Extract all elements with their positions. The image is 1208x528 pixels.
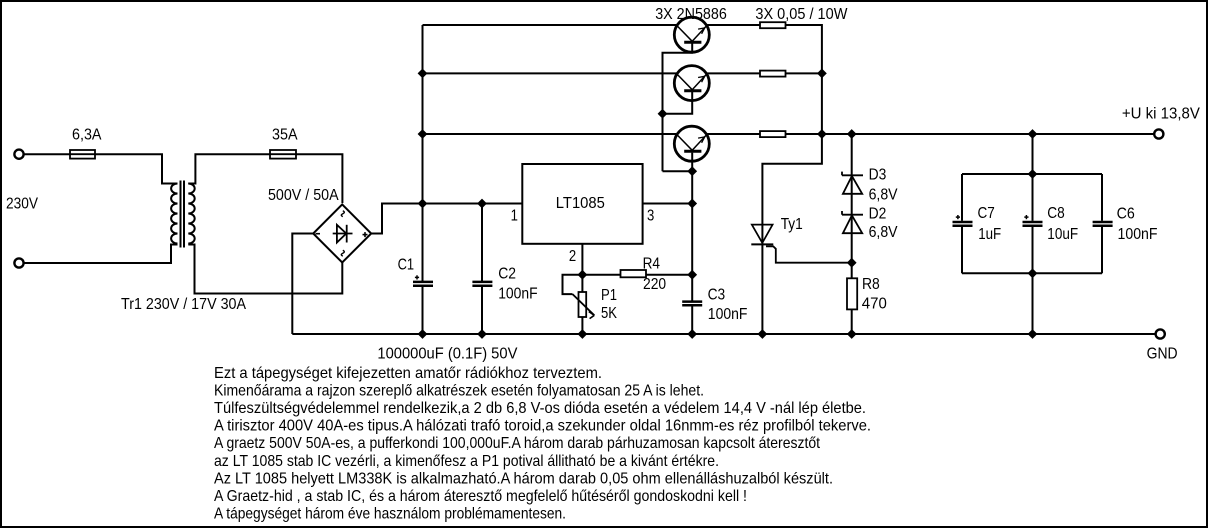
svg-text:R4: R4: [643, 256, 660, 273]
svg-text:C6: C6: [1117, 205, 1135, 222]
wire: [691, 204, 693, 301]
wire: [707, 133, 760, 135]
wire Q3 base: [691, 153, 693, 204]
fuse F2 35A: [270, 150, 296, 159]
node: [817, 129, 827, 139]
node input rail / pin1: [418, 199, 428, 209]
wire: [188, 245, 342, 294]
label P1: [601, 287, 617, 304]
wire: [707, 72, 760, 74]
label R4: [643, 256, 660, 273]
wire cap bank bottom bus: [962, 272, 1102, 274]
svg-text:3: 3: [647, 207, 654, 224]
label 3X 0,05 / 10W: [755, 6, 848, 23]
svg-text:6,8V: 6,8V: [869, 186, 898, 203]
svg-text:3X 0,05 / 10W: 3X 0,05 / 10W: [755, 6, 848, 23]
wire pin2: [581, 244, 583, 292]
label C2 100nF: [498, 286, 538, 303]
svg-text:C8: C8: [1047, 205, 1065, 222]
svg-text:A graetz 500V 50A-es, a puffer: A graetz 500V 50A-es, a pufferkondi 100,…: [214, 435, 820, 452]
wire: [95, 154, 178, 183]
bridge rectifier B1 body: [313, 204, 371, 262]
label 100000uF (0.1F) 50V: [377, 345, 517, 362]
label R4 220: [643, 276, 666, 293]
op-amp U1 LT1085 box: [522, 164, 642, 244]
label C3: [708, 286, 726, 303]
svg-text:100nF: 100nF: [498, 286, 538, 303]
svg-text:Túlfeszültségvédelemmel rendel: Túlfeszültségvédelemmel rendelkezik,a 2 …: [214, 400, 866, 417]
label bridge ~ top: [341, 211, 344, 217]
label Ty1: [781, 216, 803, 233]
node: [578, 270, 588, 280]
svg-text:5K: 5K: [601, 305, 617, 322]
capacitor C8: [1023, 222, 1043, 226]
bridge rectifier B1 diode symbol: [333, 225, 353, 243]
node 230V input terminal top: [14, 150, 23, 159]
node: [1028, 169, 1038, 179]
capacitor C2: [472, 282, 492, 286]
label description line 9: [214, 505, 566, 522]
svg-text:A tápegységet három éve haszná: A tápegységet három éve használom problé…: [214, 505, 566, 522]
resistor R4: [621, 270, 647, 277]
label 3X 2N5886: [655, 6, 727, 23]
capacitor C6: [1093, 222, 1113, 226]
transistor Q2 (2N5886): [674, 66, 709, 101]
node: [847, 129, 857, 139]
wire: [707, 24, 760, 26]
svg-text:az LT 1085 stab IC vezérli, a: az LT 1085 stab IC vezérli, a kimenőfesz…: [214, 453, 719, 470]
wire: [371, 204, 522, 234]
label D3 6,8V: [869, 186, 898, 203]
potentiometer P1 body: [579, 292, 587, 317]
wire: [188, 154, 270, 183]
svg-text:6,3A: 6,3A: [72, 126, 102, 143]
label C6 100nF: [1118, 226, 1158, 243]
resistor R1 0,05: [760, 22, 786, 28]
svg-text:Ty1: Ty1: [781, 216, 803, 233]
node: [687, 166, 697, 176]
svg-text:1: 1: [511, 207, 518, 224]
svg-text:230V: 230V: [6, 196, 38, 213]
svg-text:10uF: 10uF: [1047, 226, 1078, 243]
svg-text:500V / 50A: 500V / 50A: [268, 187, 339, 204]
label C1 +: [415, 275, 419, 279]
svg-text:C2: C2: [498, 265, 516, 282]
wire pin3: [643, 203, 693, 205]
node: [418, 129, 428, 139]
svg-text:100nF: 100nF: [1118, 226, 1158, 243]
label C6: [1117, 205, 1135, 222]
wire: [481, 287, 483, 334]
wire: [1032, 174, 1034, 221]
label C3 100nF: [708, 306, 748, 323]
wire: [292, 234, 313, 335]
node gate junction: [847, 258, 857, 268]
node: [817, 69, 827, 79]
node: [1028, 268, 1038, 278]
label C8 +: [1024, 215, 1028, 219]
node: [477, 199, 487, 209]
label bridge - terminal: [316, 233, 321, 235]
svg-text:C3: C3: [708, 286, 726, 303]
node: [477, 329, 487, 339]
label bridge + terminal: [363, 232, 368, 237]
svg-text:Az LT 1085 helyett LM338K is a: Az LT 1085 helyett LM338K is alkalmazhat…: [214, 470, 833, 487]
label C8 10uF: [1047, 226, 1078, 243]
wire: [786, 72, 822, 74]
transistor Q1 (2N5886): [674, 17, 709, 52]
node pin3 junction: [687, 199, 697, 209]
wire: [1101, 227, 1103, 273]
node: [1028, 129, 1038, 139]
wire: [581, 317, 583, 334]
svg-text:C7: C7: [978, 205, 995, 222]
wire P1 wiper: [563, 275, 583, 294]
wire: [691, 307, 693, 335]
wire: [1032, 134, 1034, 174]
label D2: [869, 206, 887, 223]
wire base rail to Q3: [663, 170, 693, 172]
node: [847, 329, 857, 339]
label D2 6,8V: [869, 224, 898, 241]
transistor Q3 (2N5886): [674, 126, 709, 161]
svg-text:1uF: 1uF: [978, 226, 1001, 243]
potentiometer P1 arrow: [573, 294, 595, 319]
transformer Tr1 primary winding: [171, 184, 177, 244]
node 230V input terminal bottom: [14, 258, 23, 267]
label LT1085: [556, 195, 605, 212]
wire row1: [423, 24, 677, 26]
label bridge ~ bottom: [341, 250, 344, 256]
transformer Tr1 secondary winding: [188, 184, 194, 244]
label R8 470: [862, 296, 887, 313]
label R8: [862, 276, 880, 293]
wire Ty1 gate: [766, 246, 852, 262]
wire: [422, 287, 424, 334]
svg-text:P1: P1: [601, 287, 617, 304]
svg-text:35A: 35A: [272, 126, 298, 143]
node: [687, 270, 697, 280]
svg-text:100nF: 100nF: [708, 306, 748, 323]
label pin 1: [511, 207, 518, 224]
label D3: [869, 166, 887, 183]
label pin 3: [647, 207, 654, 224]
label 500V / 50A: [268, 187, 339, 204]
label description line 2: [214, 383, 704, 400]
svg-text:D3: D3: [869, 166, 887, 183]
label C2: [498, 265, 516, 282]
label C8: [1047, 205, 1065, 222]
svg-text:+U ki 13,8V: +U ki 13,8V: [1122, 106, 1200, 123]
node: [418, 329, 428, 339]
node: [758, 329, 768, 339]
wire input rail vertical: [422, 25, 424, 282]
svg-text:2: 2: [569, 248, 576, 265]
capacitor C1: [413, 282, 433, 286]
wire Q1 base: [663, 44, 693, 172]
label C7 1uF: [978, 226, 1001, 243]
label description line 4: [214, 418, 871, 435]
svg-text:Kimenőárama a rajzon szereplő: Kimenőárama a rajzon szereplő alkatrésze…: [214, 383, 704, 400]
wire: [1101, 174, 1103, 221]
svg-text:R8: R8: [862, 276, 880, 293]
svg-text:3X 2N5886: 3X 2N5886: [655, 6, 727, 23]
node +U output terminal: [1154, 129, 1163, 138]
wire: [851, 134, 853, 278]
label GND: [1147, 346, 1178, 363]
wire: [582, 274, 620, 276]
label Tr1 230V / 17V 30A: [121, 296, 246, 313]
label 6,3A: [72, 126, 102, 143]
capacitor C3: [682, 302, 702, 306]
svg-text:A Graetz-hid , a stab IC, és a: A Graetz-hid , a stab IC, és a három áte…: [214, 488, 747, 505]
svg-text:LT1085: LT1085: [556, 195, 605, 212]
wire: [1032, 273, 1034, 334]
svg-text:470: 470: [862, 296, 887, 313]
label P1 5K: [601, 305, 617, 322]
label 230V: [6, 196, 38, 213]
resistor R3 0,05: [760, 131, 786, 137]
wire: [786, 133, 822, 135]
wire: [24, 153, 70, 155]
wire row2: [423, 72, 677, 74]
svg-text:C1: C1: [398, 256, 415, 273]
wire: [646, 274, 692, 276]
wire: [24, 245, 178, 264]
resistor R2 0,05: [760, 71, 786, 77]
node: [418, 69, 428, 79]
svg-text:220: 220: [643, 276, 666, 293]
label description line 6: [214, 453, 719, 470]
node: [658, 109, 668, 119]
label C7: [978, 205, 995, 222]
wire Ty1 cathode: [761, 244, 763, 334]
zener D2: [842, 211, 863, 233]
wire cap bank top bus: [962, 173, 1102, 175]
wire: [481, 204, 483, 282]
wire: [296, 154, 342, 203]
label description line 8: [214, 488, 747, 505]
node: [687, 329, 697, 339]
svg-text:Tr1 230V / 17V 30A: Tr1 230V / 17V 30A: [121, 296, 246, 313]
label +U ki 13,8V: [1122, 106, 1200, 123]
capacitor C7: [953, 222, 973, 226]
svg-text:100000uF (0.1F) 50V: 100000uF (0.1F) 50V: [377, 345, 517, 362]
svg-text:A tirisztor 400V 40A-es tipus.: A tirisztor 400V 40A-es tipus.A hálózati…: [214, 418, 871, 435]
thyristor Ty1: [751, 225, 773, 245]
wire: [961, 227, 963, 273]
node: [1028, 329, 1038, 339]
wire: [762, 134, 822, 244]
wire: [851, 309, 853, 334]
wire output rail: [822, 133, 1155, 135]
wire: [961, 174, 963, 221]
wire: [786, 25, 822, 134]
label C7 +: [956, 215, 960, 219]
label description line 5: [214, 435, 820, 452]
svg-text:6,8V: 6,8V: [869, 224, 898, 241]
label C1: [398, 256, 415, 273]
svg-text:GND: GND: [1147, 346, 1178, 363]
label 35A: [272, 126, 298, 143]
wire row3: [423, 133, 677, 135]
svg-text:D2: D2: [869, 206, 887, 223]
svg-text:Ezt a tápegységet kifejezetten: Ezt a tápegységet kifejezetten amatőr rá…: [214, 365, 602, 382]
transformer Tr1 core: [181, 181, 185, 248]
label description line 3: [214, 400, 866, 417]
wire ground rail: [292, 333, 1155, 335]
label description line 7: [214, 470, 833, 487]
node GND terminal: [1156, 329, 1165, 338]
label pin 2: [569, 248, 576, 265]
zener D3: [842, 172, 863, 194]
node: [578, 329, 588, 339]
resistor R8: [847, 278, 857, 309]
fuse F1 6,3A: [70, 150, 95, 159]
wire Q2 base: [663, 92, 693, 114]
label description line 1: [214, 365, 602, 382]
wire: [1032, 227, 1034, 273]
